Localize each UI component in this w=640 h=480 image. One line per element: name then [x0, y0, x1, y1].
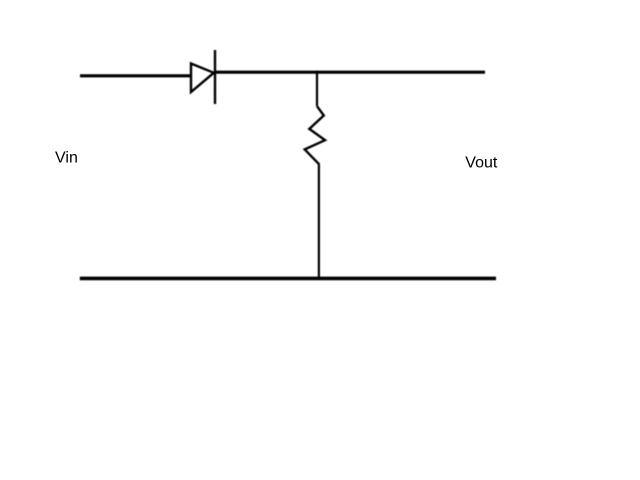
svg-text:Vin: Vin: [55, 150, 78, 167]
diode D1 cathode bar: [214, 50, 216, 104]
wire: resistor top lead: [316, 71, 318, 107]
wire: resistor bottom lead: [318, 165, 320, 280]
wire: bottom rail: [80, 277, 496, 281]
svg-text:Vout: Vout: [465, 155, 498, 172]
resistor R1 (zigzag): [305, 106, 325, 164]
wire: Vin input (top-left horizontal): [80, 74, 192, 77]
wire: cathode to Vout (top-right horizontal): [215, 71, 485, 74]
diode D1 (triangle anode): [191, 64, 214, 93]
